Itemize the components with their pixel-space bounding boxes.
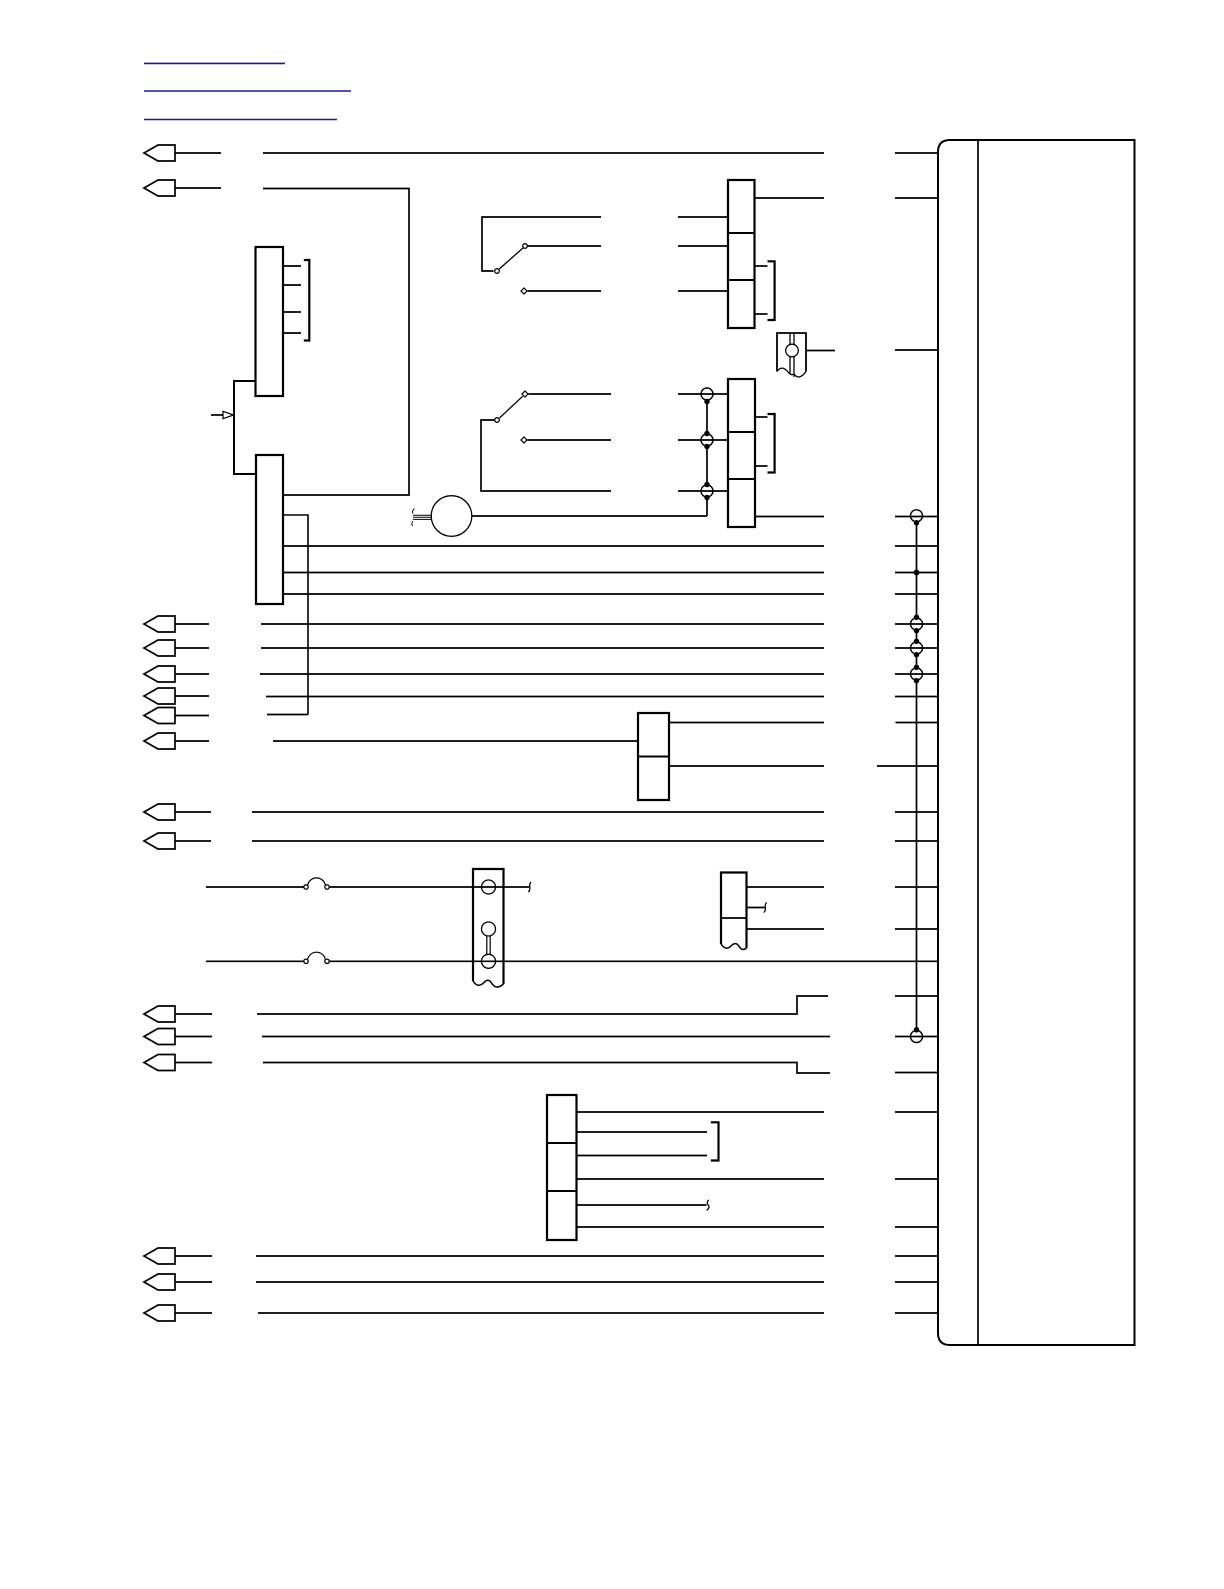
wire C1 ECU segment — [895, 811, 938, 813]
wire C2 ECU segment — [895, 840, 938, 842]
wire F1 through fuse box — [473, 886, 504, 888]
wire CN5 pin y1112 — [577, 1111, 825, 1113]
connector arrow E1 — [144, 1248, 175, 1264]
CN5 pin y1132 — [577, 1131, 708, 1133]
inline connector circle P1 — [701, 388, 713, 400]
wire B1 stub — [175, 623, 209, 625]
wire D2 stub — [175, 1036, 212, 1038]
connector strip CN3 — [256, 247, 284, 396]
wire motor riser — [706, 498, 708, 516]
wire C1 — [252, 811, 824, 813]
wire B6 to relay CN6 — [273, 740, 638, 742]
wire B4 ECU segment — [895, 696, 938, 698]
SW2 common routing — [481, 420, 611, 491]
wire C2 — [252, 840, 824, 842]
wire CN4 pin y546 — [283, 545, 824, 547]
wire F1 dead end — [504, 886, 530, 888]
wire FL1 output — [806, 350, 835, 352]
wire E1 ECU segment — [895, 1255, 938, 1257]
wire SW2 throw2 segment to CN2 — [678, 439, 728, 441]
FL1 terminal circle — [786, 344, 799, 357]
bus connector circle y648 — [911, 642, 923, 654]
connector arrow E2 — [144, 1274, 175, 1290]
M1 bundle tear marks — [412, 509, 415, 527]
wire E2 ECU segment — [895, 1281, 938, 1283]
wire P1-P2 link — [706, 402, 708, 433]
P2 lower dot — [705, 445, 709, 449]
connector arrow C1 — [144, 804, 175, 820]
wire SW1 throw2 — [528, 290, 602, 292]
F1 connector circle left — [304, 885, 308, 889]
wire E2 — [256, 1281, 824, 1283]
FL1 inner stud lines — [790, 333, 794, 377]
motor M1 — [431, 496, 472, 537]
wire CN5 pin y1179 — [577, 1178, 825, 1180]
bus top circle dot — [915, 521, 919, 525]
connector arrow B3 — [144, 666, 175, 682]
clock input line — [211, 414, 223, 416]
wire CN6 pin y766 — [669, 765, 824, 767]
wire A1 to ECU — [263, 152, 824, 154]
bus top connector circle — [911, 510, 923, 522]
wire CN5 pin y1227 — [577, 1226, 825, 1228]
wire y1112 ECU segment — [895, 1111, 938, 1113]
CN2 divider 2 — [728, 478, 755, 480]
wire P2-P3 link — [706, 447, 708, 484]
wire CN7 pin y929 — [747, 928, 825, 930]
wire y722 ECU segment — [896, 722, 939, 724]
CN3 group bracket — [304, 260, 310, 341]
wire E3 stub — [175, 1312, 212, 1314]
wire E1 stub — [175, 1255, 212, 1257]
connector arrow B2 — [144, 640, 175, 656]
wire y198 ECU segment — [895, 197, 938, 199]
bus bottom connector circle y1036 — [911, 1031, 923, 1043]
SW1 throw contact — [523, 244, 528, 249]
FB1 terminal circle 2 — [482, 922, 496, 936]
connector block CN5 — [547, 1095, 577, 1240]
F1 connector arc — [308, 878, 326, 885]
SW2 open contact diamond — [521, 437, 527, 443]
bus connector circle y624 — [911, 618, 923, 630]
F2 connector circle left — [304, 959, 308, 963]
wire B5 stub — [175, 715, 209, 717]
FL1 torn edge — [777, 368, 806, 377]
connector strip CN4 — [256, 455, 283, 604]
wire CN7 pin y887 — [747, 886, 825, 888]
wire D2 ECU segment — [895, 1036, 938, 1038]
SW1 blade — [499, 248, 523, 269]
wire M1 to P3 — [472, 515, 707, 517]
wire A2 stub — [175, 187, 221, 189]
switch SW1 common — [482, 217, 601, 271]
wire B3 ECU segment — [895, 673, 938, 675]
wire C2 stub — [175, 840, 211, 842]
FB1 link element — [487, 936, 490, 955]
SW1 open contact diamond — [521, 288, 527, 294]
hyperlink underline 3 — [144, 119, 337, 121]
CN3 pin tick 2 — [283, 284, 301, 286]
connector arrow B4 — [144, 688, 175, 704]
CN2 divider 1 — [728, 431, 755, 433]
connector arrow D2 — [144, 1029, 175, 1045]
connector arrow B5 — [144, 708, 175, 724]
wire SW2 throw1 — [529, 393, 612, 395]
wire A1 stub — [175, 152, 221, 154]
FB1 terminal circle 3 — [482, 954, 496, 968]
wire F2 left — [206, 960, 304, 962]
CN3 pin tick 3 — [283, 311, 301, 313]
wire y929 ECU segment — [895, 928, 938, 930]
CN2 pin y417 — [755, 416, 768, 418]
y648 upper dot — [915, 639, 919, 643]
wire CN1 pin y198 — [755, 197, 825, 199]
wire y516 ECU segment — [895, 516, 938, 518]
wire SW1 throw1 segment to CN1 — [678, 245, 728, 247]
CN5 pin y1155 — [577, 1155, 708, 1157]
wire D2 — [262, 1036, 830, 1038]
IC notch block — [234, 381, 256, 474]
wire CN4 pin y572 — [283, 572, 824, 574]
wire B1 — [261, 623, 824, 625]
FB1 terminal circle 1 — [482, 880, 496, 894]
CN7 stub dead end terminal — [764, 903, 767, 913]
connector arrow D3 — [144, 1055, 175, 1071]
y648 lower dot — [915, 653, 919, 657]
CN5 group bracket — [711, 1122, 719, 1160]
relay block CN7 — [721, 873, 747, 949]
connector arrow A1 — [144, 145, 175, 161]
connector arrow A2 — [144, 180, 175, 196]
wire y572 ECU segment — [895, 572, 938, 574]
connector arrow E3 — [144, 1305, 175, 1321]
y624 lower dot — [915, 629, 919, 633]
wire B2 ECU segment — [895, 647, 938, 649]
CN2 pin y466 — [755, 465, 768, 467]
wire SW2 throw1 segment to CN2 — [678, 393, 728, 395]
junction bus vertical — [916, 523, 918, 1030]
inline connector circle P2 — [701, 434, 713, 446]
wire CN4 pin y594 — [283, 593, 824, 595]
wire SW1 throw2 segment to CN1 — [678, 290, 728, 292]
wire E3 — [258, 1312, 824, 1314]
wire y350 ECU segment — [895, 349, 938, 351]
ECU block — [938, 140, 1135, 1345]
wire B6 stub — [175, 740, 209, 742]
wire F1 to fuse box — [329, 886, 473, 888]
SW2 blade — [500, 396, 523, 418]
wire B5 to bus — [267, 714, 308, 716]
F1 connector circle right — [325, 885, 329, 889]
connector block CN2 — [728, 379, 755, 527]
wire CN6 pin y722 — [669, 722, 824, 724]
clock input triangle — [223, 411, 234, 418]
CN3 pin tick 4 — [283, 332, 301, 334]
CN1 pin y314 — [755, 313, 768, 315]
wire y1072 ECU segment — [895, 1072, 938, 1074]
wire B2 — [261, 647, 824, 649]
wire C1 stub — [175, 811, 211, 813]
wire SW1 throw1 — [528, 245, 602, 247]
CN1 pin y266 — [755, 265, 768, 267]
P1 lower dot — [705, 400, 709, 404]
CN3 pin tick 1 — [283, 265, 301, 267]
wire y766 ECU segment — [877, 765, 938, 767]
wire B3 — [260, 673, 824, 675]
connector arrow D1 — [144, 1006, 175, 1022]
M1 lead bundle — [413, 515, 432, 519]
CN1 divider 1 — [728, 232, 755, 234]
wire E2 stub — [175, 1281, 212, 1283]
CN6 divider — [638, 756, 669, 758]
CN5 divider 2 — [547, 1190, 577, 1192]
wire B1 ECU segment — [895, 623, 938, 625]
wire F1 left — [206, 886, 304, 888]
connector block CN1 — [728, 180, 755, 328]
wire y1227 ECU segment — [895, 1226, 938, 1228]
CN1 divider 2 — [728, 279, 755, 281]
wire D3 stub — [175, 1062, 212, 1064]
switch SW2 throw1 diamond — [522, 391, 528, 397]
fusible link symbol FL1 — [777, 333, 806, 372]
wire D1 stub — [175, 1013, 212, 1015]
CN7 divider — [721, 917, 747, 919]
CN5 divider 1 — [547, 1142, 577, 1144]
SW2 pivot contact — [495, 418, 500, 423]
wire D1 with step up — [257, 996, 828, 1014]
hyperlink underline 2 — [144, 90, 351, 92]
P3 lower dot — [705, 496, 709, 500]
wire y996 ECU segment — [895, 995, 938, 997]
F1 dead end terminal — [528, 882, 531, 892]
CN7 torn edge — [721, 944, 747, 950]
connector arrow B1 — [144, 616, 175, 632]
connector arrow C2 — [144, 833, 175, 849]
wire E3 ECU segment — [895, 1312, 938, 1314]
SW1 pivot contact — [495, 269, 500, 274]
wire B4 stub — [175, 695, 209, 697]
wire E1 — [256, 1255, 824, 1257]
y624 upper dot — [915, 615, 919, 619]
wire y1179 ECU segment — [895, 1178, 938, 1180]
wire SW2 throw2 — [528, 439, 612, 441]
wire y594 ECU segment — [895, 593, 938, 595]
relay block CN6 — [638, 713, 669, 800]
FB1 torn edge — [473, 980, 504, 987]
bus junction dot y572 — [914, 570, 918, 574]
wire A1 ECU segment — [895, 152, 938, 154]
hyperlink underline 1 — [144, 62, 285, 64]
F2 connector arc — [308, 952, 326, 959]
wire A2 routing to connector strip CN4 — [263, 189, 409, 496]
F2 connector circle right — [325, 959, 329, 963]
bus bottom circle dot — [915, 1028, 919, 1032]
wire y546 ECU segment — [895, 545, 938, 547]
y674 upper dot — [915, 665, 919, 669]
wire D3 with step down — [263, 1063, 830, 1074]
y674 lower dot — [915, 679, 919, 683]
wire B2 stub — [175, 647, 209, 649]
P2 upper dot — [705, 432, 709, 436]
ECU inner connector line — [977, 140, 979, 1345]
wire F2 to ECU — [329, 960, 938, 962]
wire CN2 pin y516 — [755, 516, 824, 518]
bus connector circle y674 — [911, 668, 923, 680]
CN2 group bracket — [768, 414, 775, 473]
wire SW1 common segment to CN1 — [678, 216, 728, 218]
wire B3 stub — [175, 673, 209, 675]
inline connector circle P3 — [701, 485, 713, 497]
CN1 group bracket — [768, 261, 775, 320]
CN5 pin y1205 stub — [577, 1204, 707, 1206]
wire SW2 common segment to CN2 — [678, 490, 728, 492]
P3 upper dot — [705, 483, 709, 487]
CN4 pin to bus — [283, 515, 308, 715]
CN5 stub squiggle end — [707, 1200, 709, 1211]
wire B4 — [266, 696, 824, 698]
fuse box FB1 — [473, 869, 504, 984]
wire CN7 pin y907 stub — [747, 907, 765, 909]
wire y887 ECU segment — [895, 886, 938, 888]
connector arrow B6 — [144, 733, 175, 749]
